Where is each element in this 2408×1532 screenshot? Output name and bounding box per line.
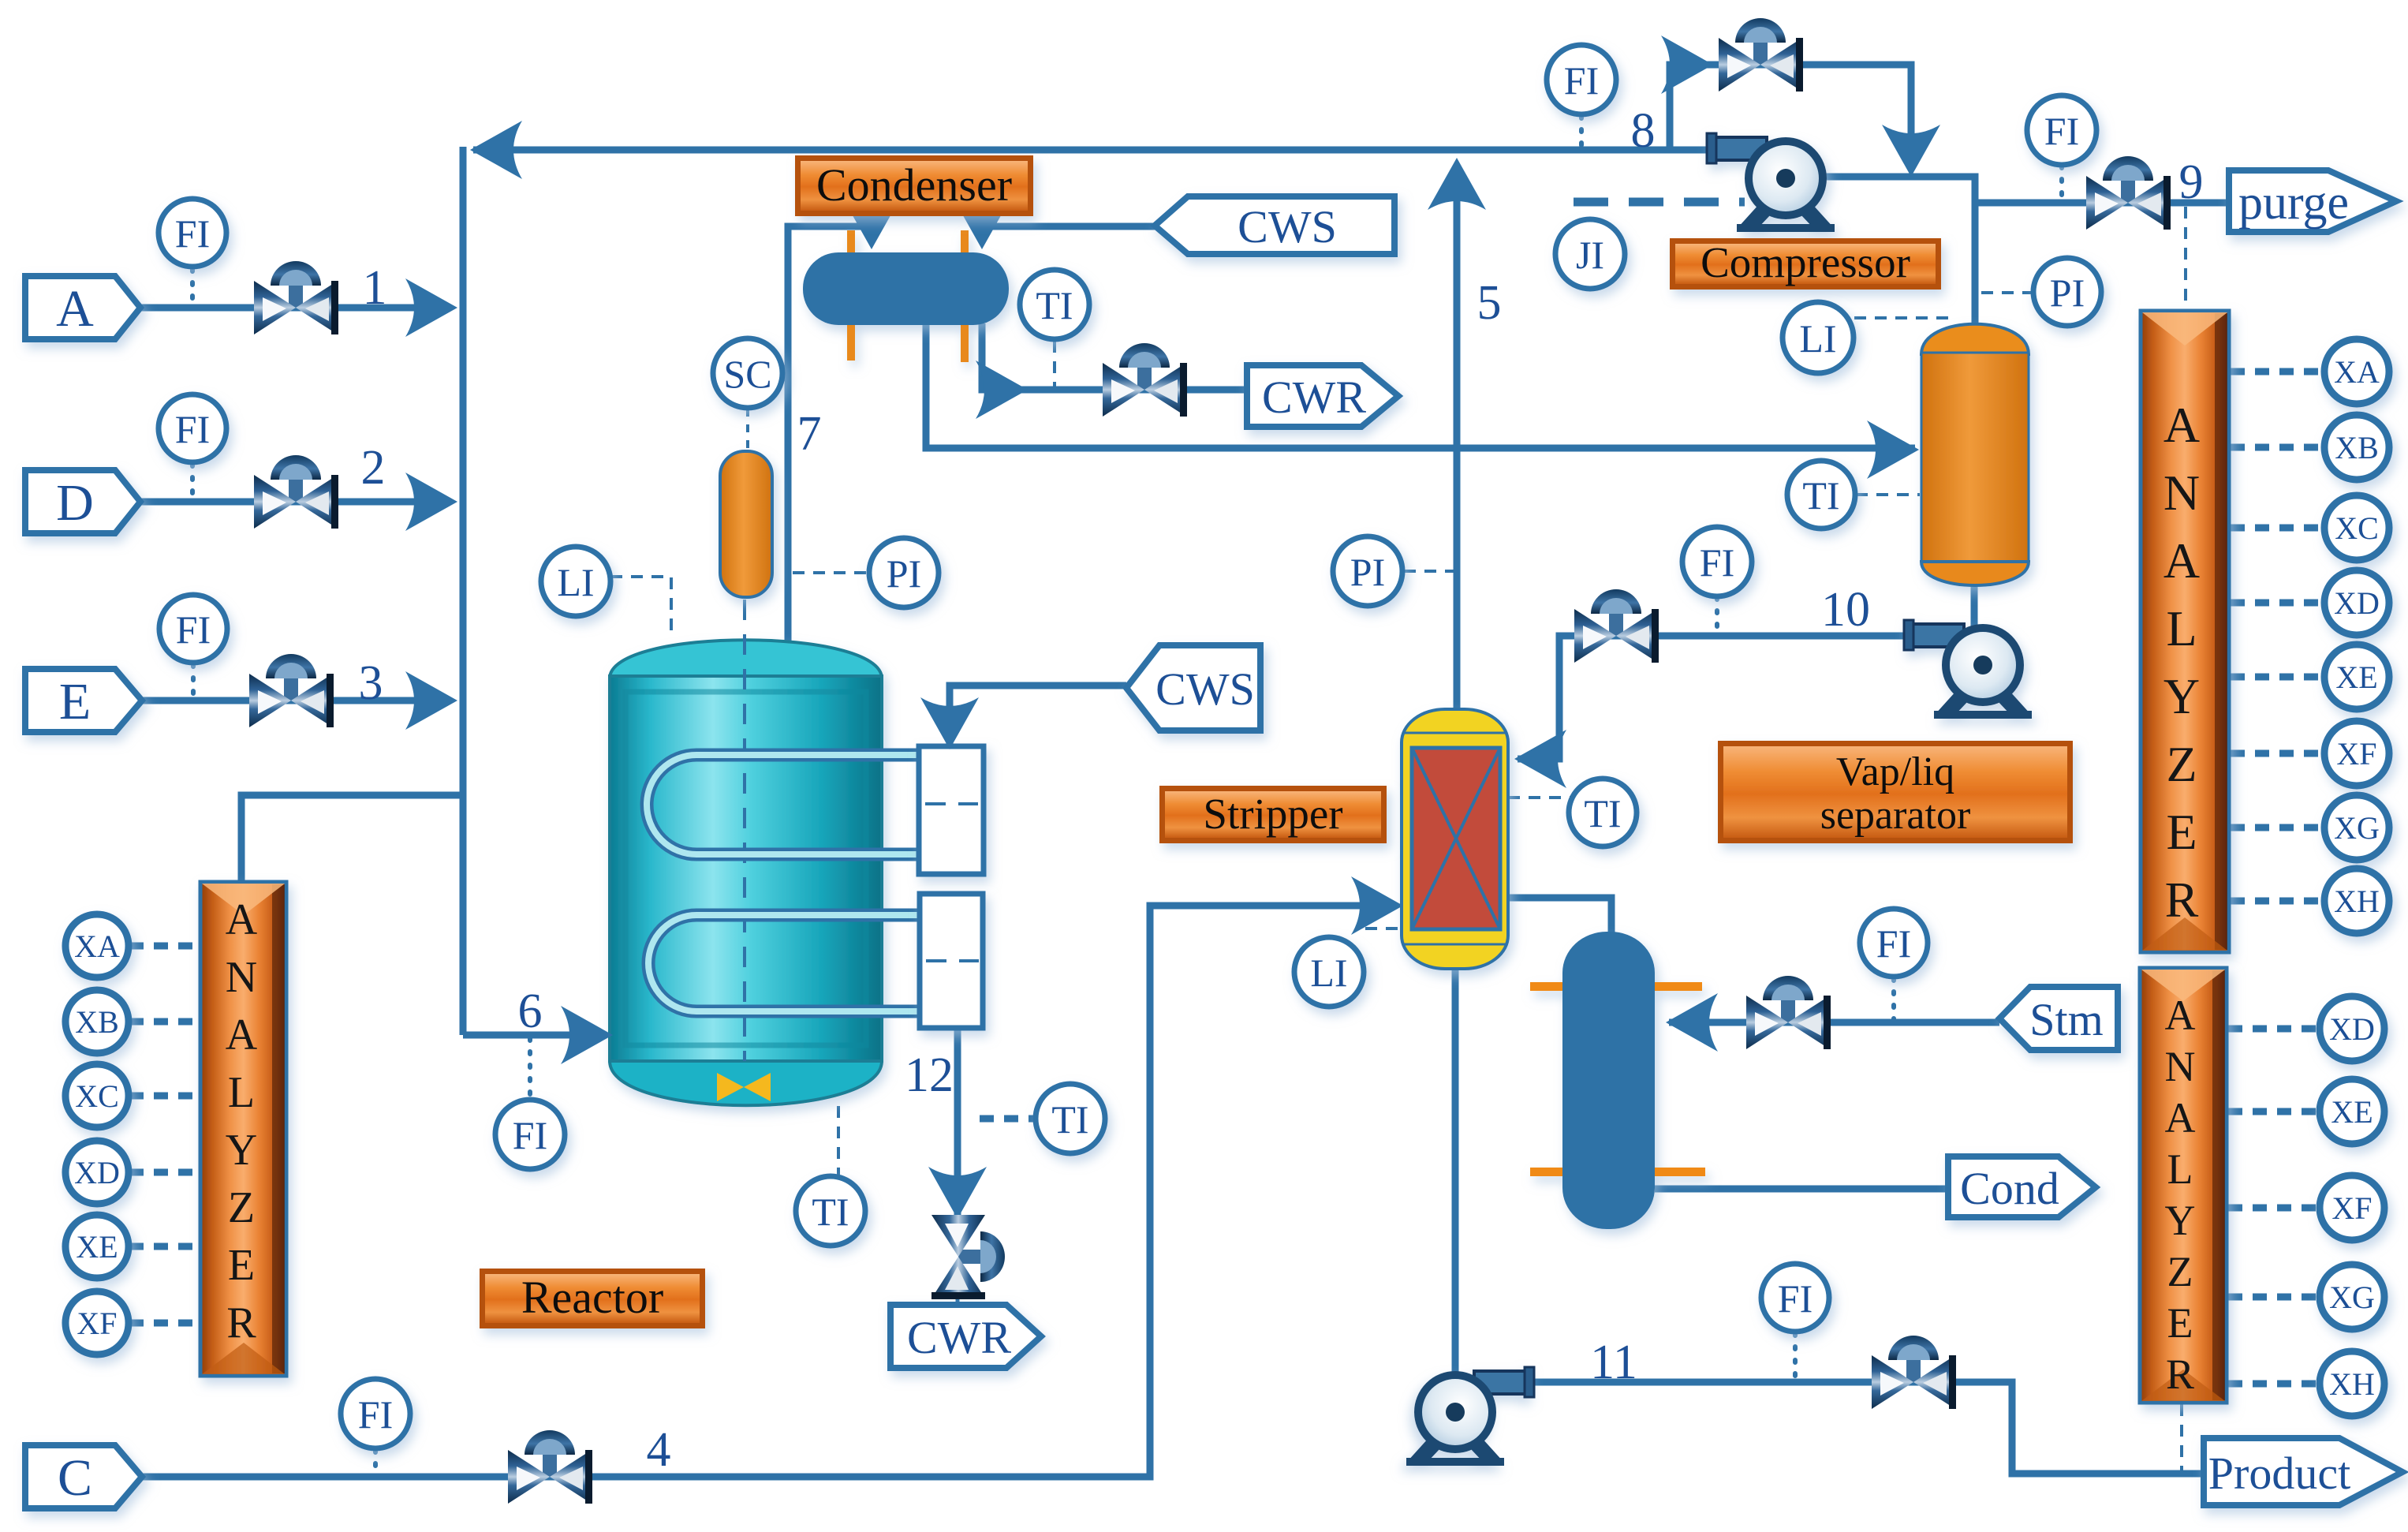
svg-text:FI: FI — [175, 407, 210, 451]
svg-text:Z: Z — [228, 1183, 255, 1232]
wire product analyzer sample dashed — [2180, 1404, 2183, 1470]
reactor cooling box upper — [919, 746, 984, 874]
svg-text:L: L — [2166, 600, 2197, 656]
svg-text:R: R — [2165, 872, 2199, 928]
svg-text:N: N — [2165, 1043, 2196, 1090]
wire stream 3 from E — [137, 697, 446, 704]
valve condenser CWR — [1103, 343, 1187, 417]
svg-text:A: A — [226, 1011, 258, 1059]
svg-text:TI: TI — [1584, 791, 1621, 835]
arrow stream 12 down — [928, 1167, 987, 1219]
wire XE left dotted — [129, 1243, 199, 1250]
wire XG right-bottom dotted — [2228, 1294, 2319, 1301]
arrow stream 10 into stripper — [1514, 730, 1566, 788]
instrument TI condenser — [1020, 270, 1089, 339]
svg-text:CWS: CWS — [1238, 201, 1337, 252]
wire riser to bypass valve 8 — [1670, 65, 1911, 169]
svg-text:4: 4 — [647, 1423, 671, 1477]
svg-text:CWR: CWR — [1262, 372, 1366, 423]
svg-text:Vap/liq: Vap/liq — [1836, 749, 1954, 794]
svg-text:9: 9 — [2179, 155, 2204, 209]
instrument XD right-top — [2324, 570, 2389, 635]
valve steam — [1746, 976, 1831, 1049]
wire PI stripper dashed — [1404, 570, 1455, 573]
svg-text:C: C — [58, 1449, 92, 1507]
wire FI-8 dotted — [1579, 116, 1584, 148]
wire stream 6 into reactor — [463, 1032, 601, 1039]
instrument SC agitator — [713, 338, 782, 408]
svg-text:3: 3 — [359, 656, 383, 710]
wire stream 5 stripper overhead — [1454, 189, 1461, 711]
svg-text:Condenser: Condenser — [816, 159, 1012, 211]
arrow stream 4 into stripper — [1351, 876, 1403, 935]
wire XH right-bottom dotted — [2228, 1381, 2319, 1388]
wire stream 12 to CWR — [954, 1028, 961, 1223]
arrow stream 2 into header — [405, 473, 457, 531]
wire FI-9 dotted — [2059, 166, 2064, 199]
wire XE right-top dotted — [2231, 674, 2324, 681]
reactor cooling coil upper — [647, 755, 921, 854]
svg-text:7: 7 — [797, 407, 822, 461]
instrument XE right-bottom — [2320, 1079, 2384, 1144]
svg-text:8: 8 — [1631, 104, 1656, 158]
svg-text:TI: TI — [1802, 473, 1839, 518]
arrow stream 6 into reactor — [561, 1006, 613, 1064]
flag feed A — [25, 276, 140, 339]
instrument XC left — [65, 1064, 129, 1127]
valve stream 8 bypass — [1719, 18, 1803, 92]
wire TI condenser dashed — [1053, 341, 1056, 388]
wire CWS to condenser — [986, 223, 1155, 230]
svg-text:N: N — [2163, 465, 2200, 521]
vap/liq separator vessel — [1921, 324, 2029, 585]
wire XD right-bottom dotted — [2228, 1026, 2319, 1033]
analyzer column right bottom — [2140, 968, 2227, 1403]
svg-text:A: A — [2163, 397, 2200, 453]
instrument FI stream2 — [159, 394, 226, 462]
pump stream 11 — [1406, 1367, 1534, 1466]
svg-text:FI: FI — [2044, 109, 2079, 153]
svg-text:A: A — [2165, 1094, 2196, 1142]
svg-text:Y: Y — [226, 1126, 257, 1175]
flag CWR reactor — [890, 1305, 1041, 1368]
valve stream 1 — [254, 261, 338, 334]
wire stream 10 to stripper — [1518, 636, 1915, 759]
instrument PI reactor — [869, 538, 939, 607]
reactor bottom valve (yellow) — [717, 1073, 771, 1101]
wire FI-1 dotted — [190, 269, 195, 306]
wire compressor discharge to separator — [1819, 177, 1975, 334]
instrument TI stripper — [1569, 779, 1637, 846]
arrow feed into separator — [1867, 420, 1919, 479]
svg-text:CWS: CWS — [1155, 663, 1255, 715]
label box Reactor — [480, 1269, 705, 1328]
arrow stream 3 into header — [405, 671, 457, 730]
wire recycle header line 8 top — [473, 147, 1757, 154]
arrow stream 5 into recycle — [1428, 158, 1486, 210]
flag Cond — [1948, 1156, 2096, 1217]
flag CWR condenser — [1247, 365, 1398, 427]
svg-text:PI: PI — [1350, 550, 1385, 594]
wire XG right-top dotted — [2231, 824, 2324, 831]
valve stream 9 purge — [2086, 156, 2171, 230]
svg-text:Y: Y — [2163, 668, 2200, 724]
svg-text:D: D — [56, 474, 94, 532]
wire main feed vertical header — [460, 147, 467, 1035]
svg-text:R: R — [226, 1298, 256, 1347]
wire XF left dotted — [129, 1320, 199, 1327]
svg-text:R: R — [2166, 1351, 2194, 1398]
svg-text:PI: PI — [887, 551, 921, 596]
svg-text:XC: XC — [75, 1078, 119, 1114]
label box Vap/liq separator — [1718, 741, 2073, 843]
instrument XE left — [65, 1215, 129, 1278]
instrument XA left — [65, 914, 129, 977]
instrument XC right-top — [2324, 495, 2389, 560]
instrument PI stripper — [1333, 536, 1402, 606]
instrument LI reactor — [541, 547, 610, 616]
svg-text:10: 10 — [1821, 583, 1870, 637]
instrument FI stream8 — [1547, 45, 1616, 114]
instrument XF left — [65, 1291, 129, 1355]
wire XA right-top dotted — [2231, 368, 2324, 376]
flag feed E — [25, 669, 142, 732]
arrow CW outlet to CWR — [976, 361, 1028, 419]
svg-text:FI: FI — [175, 211, 210, 256]
svg-text:CWR: CWR — [907, 1312, 1011, 1363]
svg-text:FI: FI — [513, 1113, 547, 1157]
svg-text:E: E — [59, 673, 91, 731]
wire separator bottom to pump — [1971, 577, 1978, 631]
wire stream 2 from D — [136, 499, 446, 506]
instrument FI stream9 — [2027, 95, 2096, 165]
reactor vessel — [610, 640, 882, 1105]
svg-text:XH: XH — [2334, 884, 2380, 919]
svg-text:XD: XD — [2329, 1011, 2375, 1047]
valve stream 3 — [249, 654, 334, 727]
wire FI-11 dotted — [1793, 1333, 1798, 1379]
flag CWS condenser — [1155, 196, 1394, 254]
svg-text:Product: Product — [2208, 1448, 2350, 1499]
wire TI separator dashed — [1856, 493, 1920, 496]
compressor symbol — [1707, 133, 1835, 232]
svg-text:E: E — [2167, 1299, 2193, 1347]
wire XF right-bottom dotted — [2228, 1205, 2319, 1212]
flag purge — [2229, 170, 2396, 232]
svg-text:Z: Z — [2166, 736, 2197, 792]
wire Stm steam line — [1669, 1019, 1999, 1026]
label box Condenser — [795, 155, 1033, 216]
svg-text:TI: TI — [812, 1190, 849, 1234]
instrument LI separator — [1783, 302, 1854, 373]
wire XD left dotted — [129, 1169, 199, 1176]
instrument TI reactor — [796, 1176, 865, 1246]
SC agitator drive vessel — [720, 451, 772, 597]
svg-text:XG: XG — [2334, 810, 2380, 846]
flag feed D — [25, 470, 140, 533]
svg-text:XF: XF — [2331, 1190, 2372, 1226]
svg-text:separator: separator — [1820, 793, 1971, 838]
svg-text:FI: FI — [358, 1392, 393, 1437]
instrument XH right-top — [2324, 869, 2389, 933]
svg-text:FI: FI — [1876, 921, 1911, 966]
label box Stripper — [1159, 786, 1387, 843]
svg-text:XE: XE — [2335, 660, 2377, 695]
svg-text:2: 2 — [361, 441, 386, 495]
valve stream 10 — [1574, 589, 1659, 663]
wire valve 12 to CWR flag — [956, 1272, 960, 1308]
wire XB right-top dotted — [2231, 444, 2324, 451]
svg-text:FI: FI — [176, 607, 211, 652]
svg-text:XE: XE — [2331, 1094, 2373, 1130]
instrument FI stream3 — [159, 595, 227, 663]
flag feed C — [25, 1445, 142, 1508]
svg-text:XD: XD — [2334, 585, 2380, 621]
svg-text:XF: XF — [77, 1306, 117, 1341]
wire FI-10 dotted — [1715, 597, 1719, 633]
instrument XG right-top — [2324, 795, 2389, 860]
wire PI separator dashed — [1981, 291, 2034, 294]
wire stream 9 purge line — [1975, 200, 2229, 207]
stripper reboiler/heater vessel — [1530, 932, 1705, 1229]
svg-text:XB: XB — [2335, 430, 2379, 465]
svg-text:L: L — [2167, 1145, 2193, 1193]
instrument PI separator — [2033, 258, 2101, 326]
svg-text:Stripper: Stripper — [1203, 790, 1342, 838]
svg-text:Compressor: Compressor — [1701, 238, 1910, 286]
instrument XA right-top — [2324, 339, 2389, 404]
flag Stm — [1999, 987, 2118, 1050]
wire SC dashed — [746, 409, 749, 450]
flag Product — [2204, 1438, 2402, 1505]
svg-text:N: N — [226, 953, 257, 1002]
instrument XG right-bottom — [2320, 1265, 2384, 1329]
wire LI stripper dashed — [1365, 927, 1402, 930]
svg-text:XF: XF — [2336, 736, 2376, 772]
wire CWS to reactor cooling — [950, 686, 1126, 751]
instrument XD left — [65, 1141, 129, 1204]
svg-text:Stm: Stm — [2029, 994, 2104, 1045]
instrument FI stream1 — [159, 199, 226, 267]
wire stream 11 to Product — [1522, 1382, 2207, 1474]
svg-text:E: E — [228, 1241, 255, 1290]
valve stream 4 — [508, 1430, 592, 1504]
arrow stream 1 into header — [405, 278, 457, 337]
wire stream 1 from A — [136, 305, 446, 312]
wire XC right-top dotted — [2231, 525, 2324, 532]
pump stream 10 — [1904, 620, 2032, 719]
analyzer column left — [200, 882, 286, 1376]
instrument XD right-bottom — [2320, 996, 2384, 1061]
svg-text:6: 6 — [518, 985, 543, 1038]
wire PI reactor dashed — [793, 571, 868, 574]
wire TI stripper dashed — [1508, 796, 1570, 799]
wire FI-6 dotted — [528, 1038, 532, 1098]
instrument XF right-top — [2324, 721, 2389, 786]
instrument XF right-bottom — [2320, 1175, 2384, 1240]
wire Cond condensate line — [1655, 1186, 1951, 1193]
svg-text:11: 11 — [1590, 1336, 1637, 1389]
wire stripper side draw to heater — [1508, 898, 1611, 943]
svg-text:1: 1 — [363, 261, 387, 315]
reactor cooling box lower — [920, 894, 983, 1028]
svg-text:E: E — [2166, 804, 2197, 860]
wire stream 4 from C to stripper — [137, 906, 1390, 1477]
arrow Stm into heater — [1666, 993, 1718, 1052]
svg-text:Reactor: Reactor — [521, 1272, 663, 1323]
svg-text:FI: FI — [1564, 58, 1599, 103]
analyzer column right top — [2141, 311, 2229, 952]
instrument FI steam — [1860, 909, 1928, 977]
wire left analyzer sample line — [241, 795, 463, 882]
svg-text:XB: XB — [75, 1004, 119, 1040]
wire FI-4 dotted — [373, 1450, 378, 1474]
wire XA left dotted — [129, 943, 199, 950]
label ANALYZER right bottom — [2165, 992, 2196, 1398]
svg-text:XG: XG — [2329, 1280, 2375, 1315]
reactor cooling coil lower — [648, 915, 921, 1011]
svg-text:A: A — [2165, 992, 2196, 1039]
svg-text:FI: FI — [1700, 540, 1734, 585]
svg-text:XA: XA — [74, 929, 120, 964]
instrument LI stripper — [1294, 937, 1364, 1007]
wire stream 7 reactor to condenser — [788, 226, 868, 641]
svg-text:LI: LI — [557, 560, 594, 604]
svg-text:XD: XD — [74, 1155, 120, 1190]
arrow recycle into header — [470, 121, 522, 179]
svg-text:FI: FI — [1778, 1276, 1813, 1321]
instrument FI stream4 — [341, 1379, 410, 1448]
svg-text:LI: LI — [1799, 316, 1836, 361]
arrow stream 8 to valve — [1661, 35, 1713, 94]
instrument FI stream6 — [495, 1100, 565, 1169]
wire LI reactor dashed — [610, 577, 671, 636]
valve stream 12 (rotated) — [931, 1215, 1005, 1299]
wire condenser CW outlet to CWR — [982, 323, 1247, 390]
label box Compressor — [1670, 238, 1941, 290]
instrument JI compressor — [1555, 219, 1625, 289]
svg-text:XE: XE — [76, 1229, 118, 1265]
svg-text:A: A — [56, 280, 94, 338]
arrow CWS into cooling box — [920, 697, 979, 749]
wire XF right-top dotted — [2231, 750, 2324, 757]
svg-text:LI: LI — [1310, 951, 1347, 995]
condenser vessel — [803, 230, 1009, 362]
wire XC left dotted — [129, 1093, 199, 1100]
svg-text:XC: XC — [2335, 510, 2379, 546]
svg-text:Y: Y — [2165, 1197, 2196, 1244]
svg-text:TI: TI — [1051, 1097, 1088, 1142]
svg-text:JI: JI — [1576, 233, 1604, 277]
wire condenser outlet to separator — [926, 323, 1915, 448]
arrow stream 8 down to discharge — [1882, 125, 1940, 177]
valve stream 11 — [1872, 1336, 1956, 1409]
wire XE right-bottom dotted — [2228, 1108, 2319, 1115]
svg-text:12: 12 — [905, 1048, 954, 1102]
svg-text:A: A — [226, 895, 258, 944]
instrument XB left — [65, 990, 129, 1053]
svg-text:A: A — [2163, 532, 2200, 589]
wire FI-Stm dotted — [1891, 978, 1896, 1019]
stripper vessel — [1402, 709, 1508, 969]
arrow CWS into condenser — [953, 197, 1011, 249]
svg-text:purge: purge — [2238, 176, 2349, 230]
instrument XH right-bottom — [2320, 1351, 2384, 1416]
svg-text:SC: SC — [723, 352, 771, 396]
wire XB left dotted — [129, 1018, 199, 1026]
wire JI compressor dashed — [1574, 198, 1745, 207]
svg-text:PI: PI — [2050, 271, 2085, 315]
svg-text:XA: XA — [2334, 354, 2380, 390]
wire XD right-top dotted — [2231, 600, 2324, 607]
svg-text:XH: XH — [2329, 1366, 2375, 1402]
wire XH right-top dotted — [2231, 898, 2324, 905]
svg-text:5: 5 — [1477, 276, 1502, 330]
wire agitator shaft dashed — [743, 600, 746, 1061]
svg-text:Cond: Cond — [1960, 1163, 2059, 1214]
wire LI separator dashed — [1854, 318, 1947, 338]
svg-text:L: L — [228, 1068, 255, 1117]
wire stripper bottoms to pump — [1452, 969, 1459, 1379]
instrument FI stream10 — [1682, 527, 1752, 596]
flag CWS reactor — [1126, 645, 1260, 731]
wire FI-3 dotted — [191, 664, 196, 699]
instrument FI stream11 — [1761, 1264, 1829, 1332]
instrument TI separator — [1787, 461, 1855, 529]
svg-text:TI: TI — [1036, 283, 1073, 327]
arrow stream 7 into condenser — [842, 197, 901, 249]
svg-text:Z: Z — [2167, 1248, 2193, 1295]
label ANALYZER left — [226, 895, 258, 1347]
valve stream 2 — [254, 455, 338, 529]
label ANALYZER right top — [2163, 397, 2200, 928]
instrument TI stream12 — [1036, 1084, 1105, 1153]
wire FI-2 dotted — [190, 464, 195, 500]
wire TI reactor dashed — [837, 1106, 840, 1175]
wire TI line-12 dashed — [980, 1115, 1034, 1123]
instrument XE right-top — [2324, 645, 2389, 709]
instrument XB right-top — [2324, 415, 2389, 480]
wire purge analyzer sample dashed — [2184, 207, 2187, 309]
